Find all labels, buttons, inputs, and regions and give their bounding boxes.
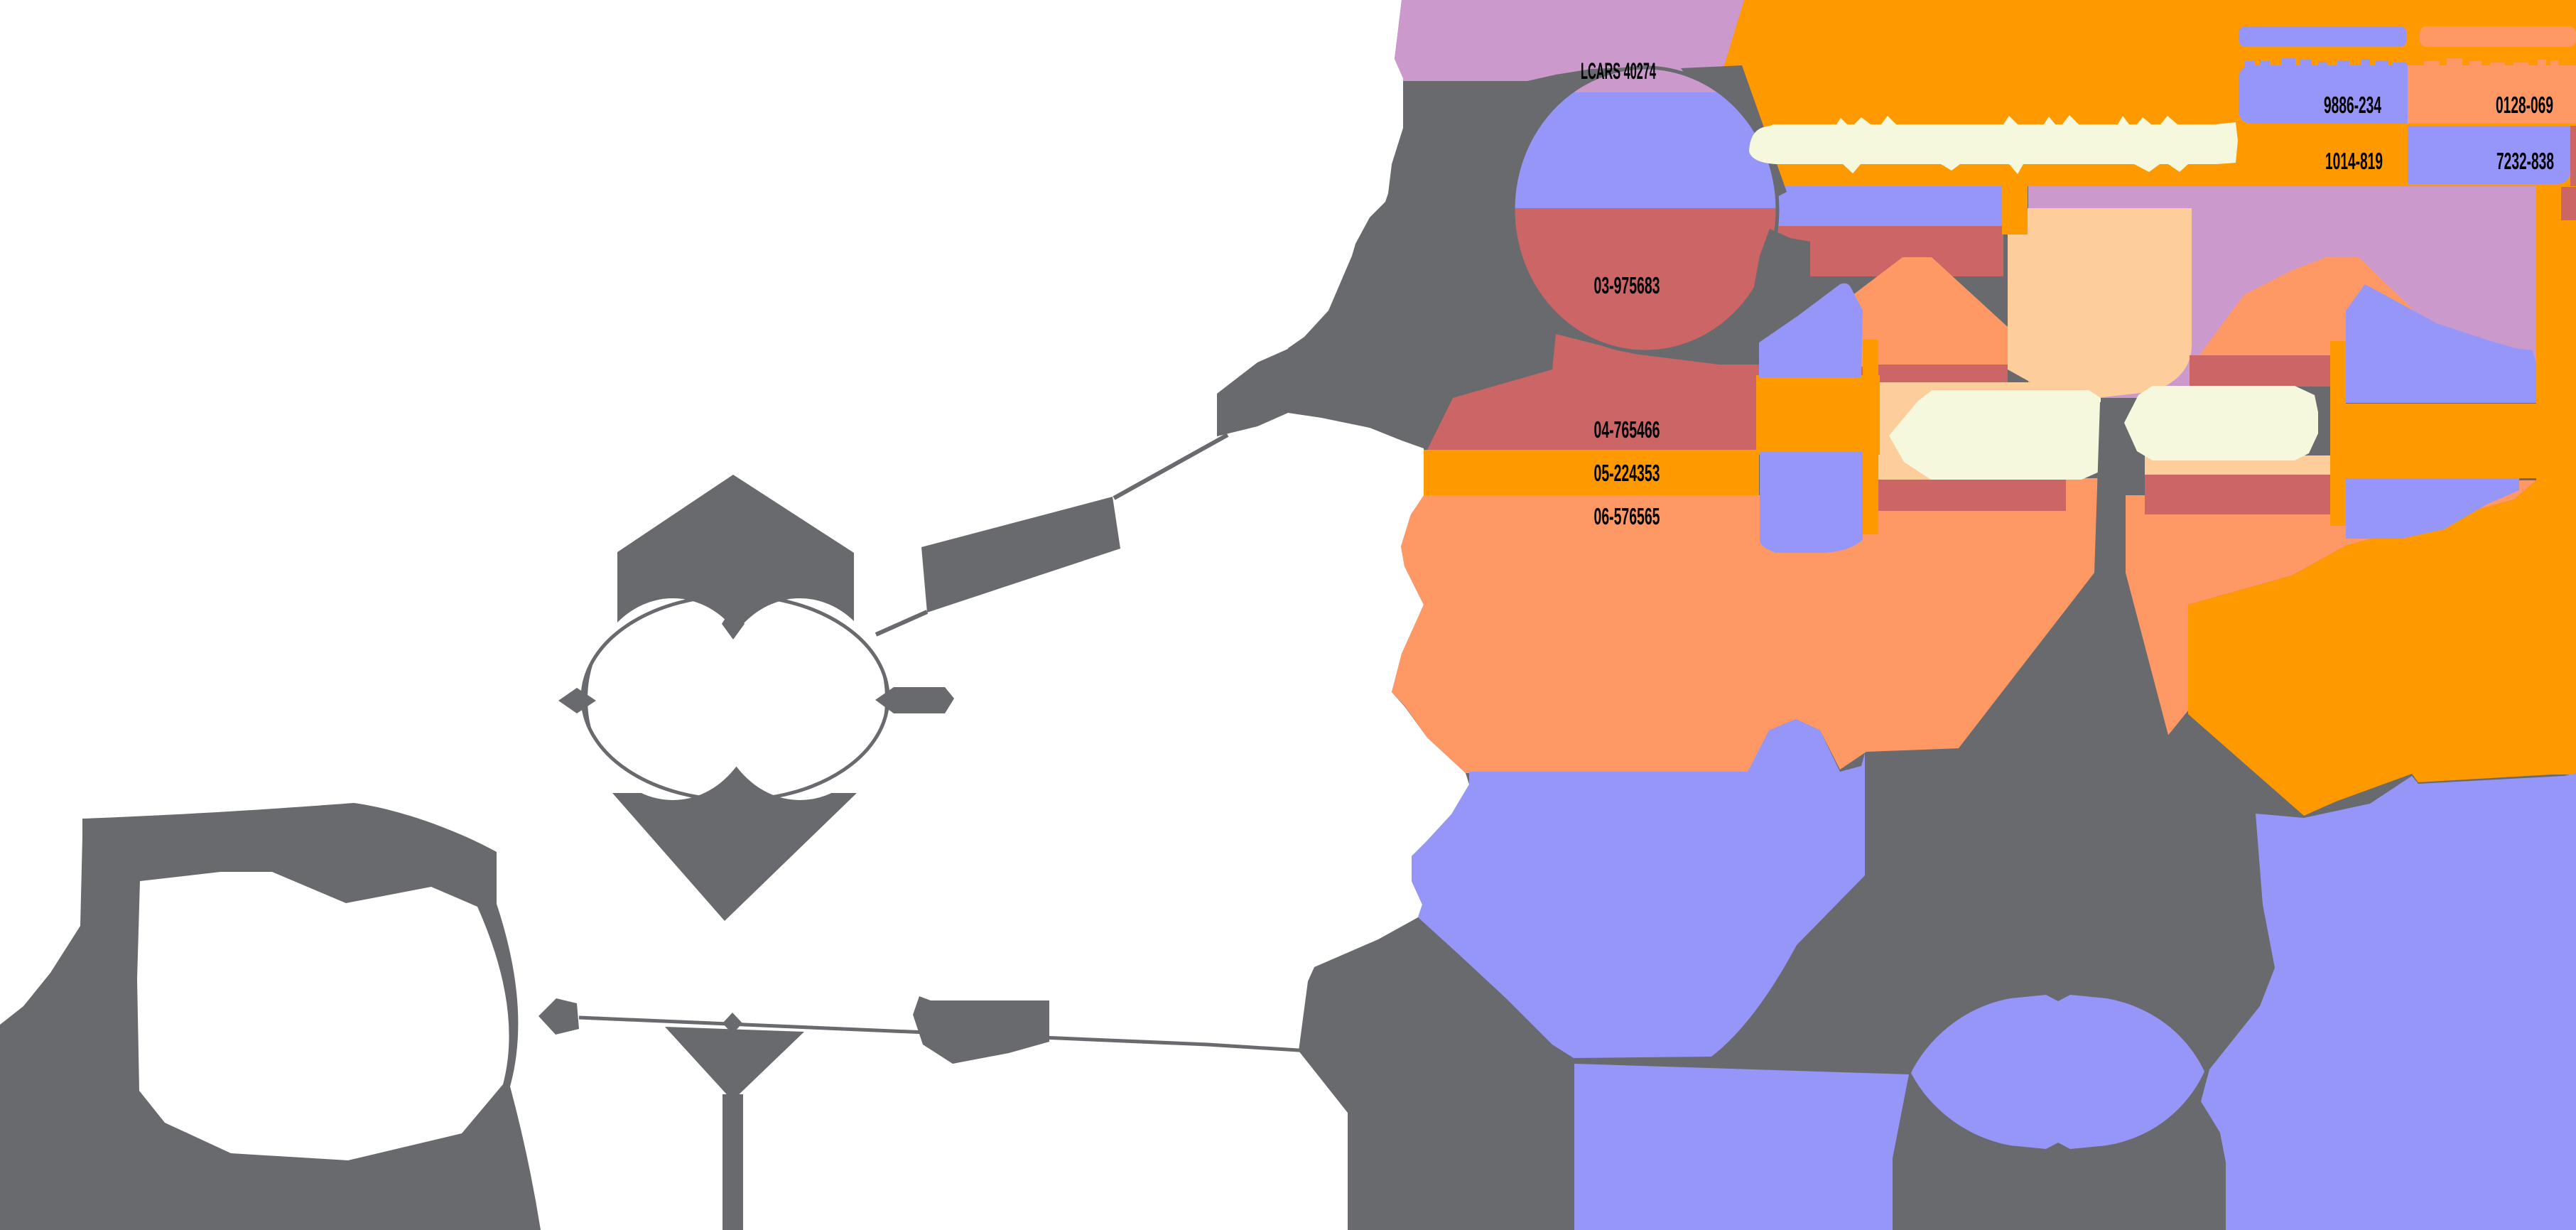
peach row left [1878, 382, 2065, 480]
chevron below ring [612, 793, 857, 921]
salmon wedge W2 [2199, 257, 2432, 356]
orange band 05 [1424, 450, 1759, 495]
orange gap strip [2002, 181, 2028, 234]
top-right label blocks [2239, 26, 2407, 47]
white lobes [588, 598, 758, 800]
west diamond [558, 688, 596, 713]
svg-text:03-975683: 03-975683 [1594, 272, 1660, 298]
gray wedge right of circle [1739, 229, 1810, 371]
blue top wedge right [2346, 284, 2536, 403]
svg-text:LCARS 40274: LCARS 40274 [1581, 58, 1656, 84]
blue middle right wedge [2346, 478, 2519, 539]
orange strip + block left column [1863, 340, 1878, 534]
red row right under pill2 [2145, 475, 2346, 514]
white hole in blob [137, 872, 509, 1160]
peach tall block [2008, 208, 2192, 401]
blue lens [1911, 995, 2204, 1149]
hexagon blob [617, 475, 854, 631]
orange right column + band [2536, 186, 2576, 775]
top nub [722, 605, 745, 640]
gray arm over orange (top) [1681, 65, 1787, 202]
red row B under cream pill1 [1878, 480, 2072, 511]
gray backdrop right half [1288, 0, 2576, 1230]
neck wedge [1217, 349, 1288, 436]
red main block 03/04 [1427, 334, 2008, 450]
bottom nub [725, 776, 747, 811]
ring ellipse gray fill [581, 594, 889, 802]
salmon patch under pill1 right [2066, 478, 2101, 514]
salmon wedge W1 [1844, 257, 2008, 367]
orange top mega [1709, 0, 2576, 186]
orange bottom-right mega [2188, 480, 2576, 816]
red upper band right of circle [1748, 226, 2003, 276]
funnel [665, 1027, 804, 1101]
node diamond on arc [539, 998, 579, 1035]
gray bottom blob [1893, 1106, 2226, 1230]
blue pill 1 [1759, 284, 1863, 377]
svg-text:1014-819: 1014-819 [2325, 148, 2383, 174]
svg-text:9886-234: 9886-234 [2324, 92, 2381, 118]
red row A left [1878, 365, 2008, 382]
connector line B [876, 612, 927, 635]
peach row right [2145, 455, 2330, 475]
blue band right of circle [1762, 183, 2003, 226]
blue region B bottom [1574, 1064, 1909, 1230]
orange right strip [2330, 341, 2346, 526]
red row A right [2190, 355, 2346, 387]
circle rim stroke [1513, 68, 1777, 352]
cream pill 1 [1889, 390, 2101, 480]
mauve big region [2028, 185, 2565, 403]
thin line A [1114, 435, 1228, 498]
lilac top-left region [1395, 0, 1744, 116]
east diamond + tail [875, 687, 954, 713]
big blob bottom-left [0, 803, 541, 1230]
blue pill 2 [1760, 452, 1863, 553]
svg-text:04-765466: 04-765466 [1594, 416, 1660, 443]
cream melted text row [1749, 115, 2238, 174]
gray trunk + triangle [1944, 402, 2177, 767]
blue region A bottom-left [1412, 719, 1865, 1058]
salmon main region [1392, 480, 2536, 773]
blue bottom right [2201, 773, 2576, 1230]
band2 parallelogram [921, 497, 1120, 613]
svg-text:7232-838: 7232-838 [2496, 148, 2554, 174]
melted text bumps above blocks [2245, 61, 2254, 75]
ring rim stroke [583, 595, 888, 800]
svg-text:05-224353: 05-224353 [1594, 460, 1660, 486]
long line D [579, 1018, 1570, 1067]
trapezoid blob [913, 996, 1049, 1064]
svg-text:06-576565: 06-576565 [1594, 503, 1660, 529]
cream pill 2 [2124, 386, 2318, 460]
svg-text:0128-069: 0128-069 [2496, 92, 2553, 118]
